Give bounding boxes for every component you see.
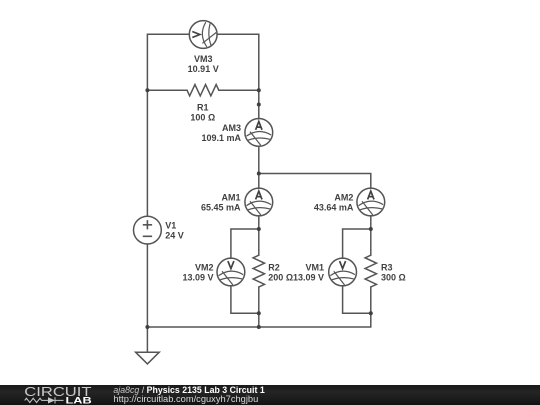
resistor R3	[365, 255, 376, 287]
svg-text:VM2: VM2	[195, 263, 214, 273]
wire VM1 branch top	[343, 229, 371, 258]
svg-text:13.09 V: 13.09 V	[293, 273, 324, 283]
voltmeter VM3	[189, 21, 217, 49]
wire AM2 bottom to R3 top	[370, 216, 372, 255]
node bottom rail R2 junction	[257, 325, 261, 329]
voltage source V1	[134, 216, 162, 244]
svg-text:AM3: AM3	[222, 123, 241, 133]
node AM1/AM2 branch junction	[257, 172, 261, 176]
footer logo squiggle and diode	[25, 397, 64, 403]
wire R1 right	[219, 89, 259, 91]
svg-text:65.45 mA: 65.45 mA	[201, 202, 241, 212]
wire V1 bottom to ground	[146, 244, 148, 352]
svg-text:109.1 mA: 109.1 mA	[201, 133, 241, 143]
resistor R1	[187, 84, 219, 95]
resistor R2	[253, 255, 264, 287]
svg-text:http://circuitlab.com/cguxyh7c: http://circuitlab.com/cguxyh7chgjbu	[113, 394, 258, 404]
node R1 left junction	[145, 88, 149, 92]
node VM1/R3 bottom junction	[369, 311, 373, 315]
svg-text:10.91 V: 10.91 V	[188, 64, 219, 74]
wire R1 left	[147, 89, 187, 91]
wire VM1 branch bottom	[343, 286, 371, 314]
svg-text:R3: R3	[381, 263, 393, 273]
wire VM2 branch top	[231, 229, 259, 258]
voltmeter VM1	[329, 258, 357, 286]
wire AM3 bottom to AM1 top	[258, 146, 260, 188]
svg-text:24 V: 24 V	[165, 231, 184, 241]
node AM1 bottom junction	[257, 227, 261, 231]
node R1 right junction	[257, 88, 261, 92]
node AM2 bottom junction	[369, 227, 373, 231]
svg-text:100 Ω: 100 Ω	[190, 112, 215, 122]
svg-text:R1: R1	[197, 102, 209, 112]
ammeter AM2	[357, 188, 385, 216]
svg-text:200 Ω: 200 Ω	[268, 273, 293, 283]
node VM2/R2 bottom junction	[257, 311, 261, 315]
wire branch to AM2	[259, 174, 371, 189]
ground	[136, 352, 160, 364]
svg-text:V1: V1	[165, 221, 176, 231]
wire R2 bottom to bottom rail	[258, 287, 260, 327]
ammeter AM3	[245, 118, 273, 146]
svg-text:AM2: AM2	[334, 192, 353, 202]
footer bar	[0, 385, 540, 405]
voltmeter VM2	[217, 258, 245, 286]
svg-text:VM3: VM3	[194, 54, 213, 64]
junction node dots	[145, 88, 372, 329]
node ground junction	[145, 325, 149, 329]
svg-text:VM1: VM1	[305, 263, 324, 273]
svg-text:LAB: LAB	[66, 395, 92, 405]
footer logo CIRCUIT	[24, 385, 92, 399]
svg-text:AM1: AM1	[221, 192, 240, 202]
wire VM2 branch bottom	[231, 286, 259, 314]
svg-text:43.64 mA: 43.64 mA	[314, 202, 354, 212]
svg-text:13.09 V: 13.09 V	[182, 273, 213, 283]
wire left vertical top (V1 top to top-left corner)	[147, 34, 189, 216]
svg-text:300 Ω: 300 Ω	[381, 273, 406, 283]
wire AM1 bottom to R2 top	[258, 216, 260, 255]
ammeter AM1	[245, 188, 273, 216]
wire top-right from VM3 to right corner and down to AM3	[217, 34, 259, 118]
wire R3 bottom to bottom rail corner	[147, 287, 370, 327]
svg-text:R2: R2	[268, 263, 280, 273]
node AM3 top junction	[257, 103, 261, 107]
